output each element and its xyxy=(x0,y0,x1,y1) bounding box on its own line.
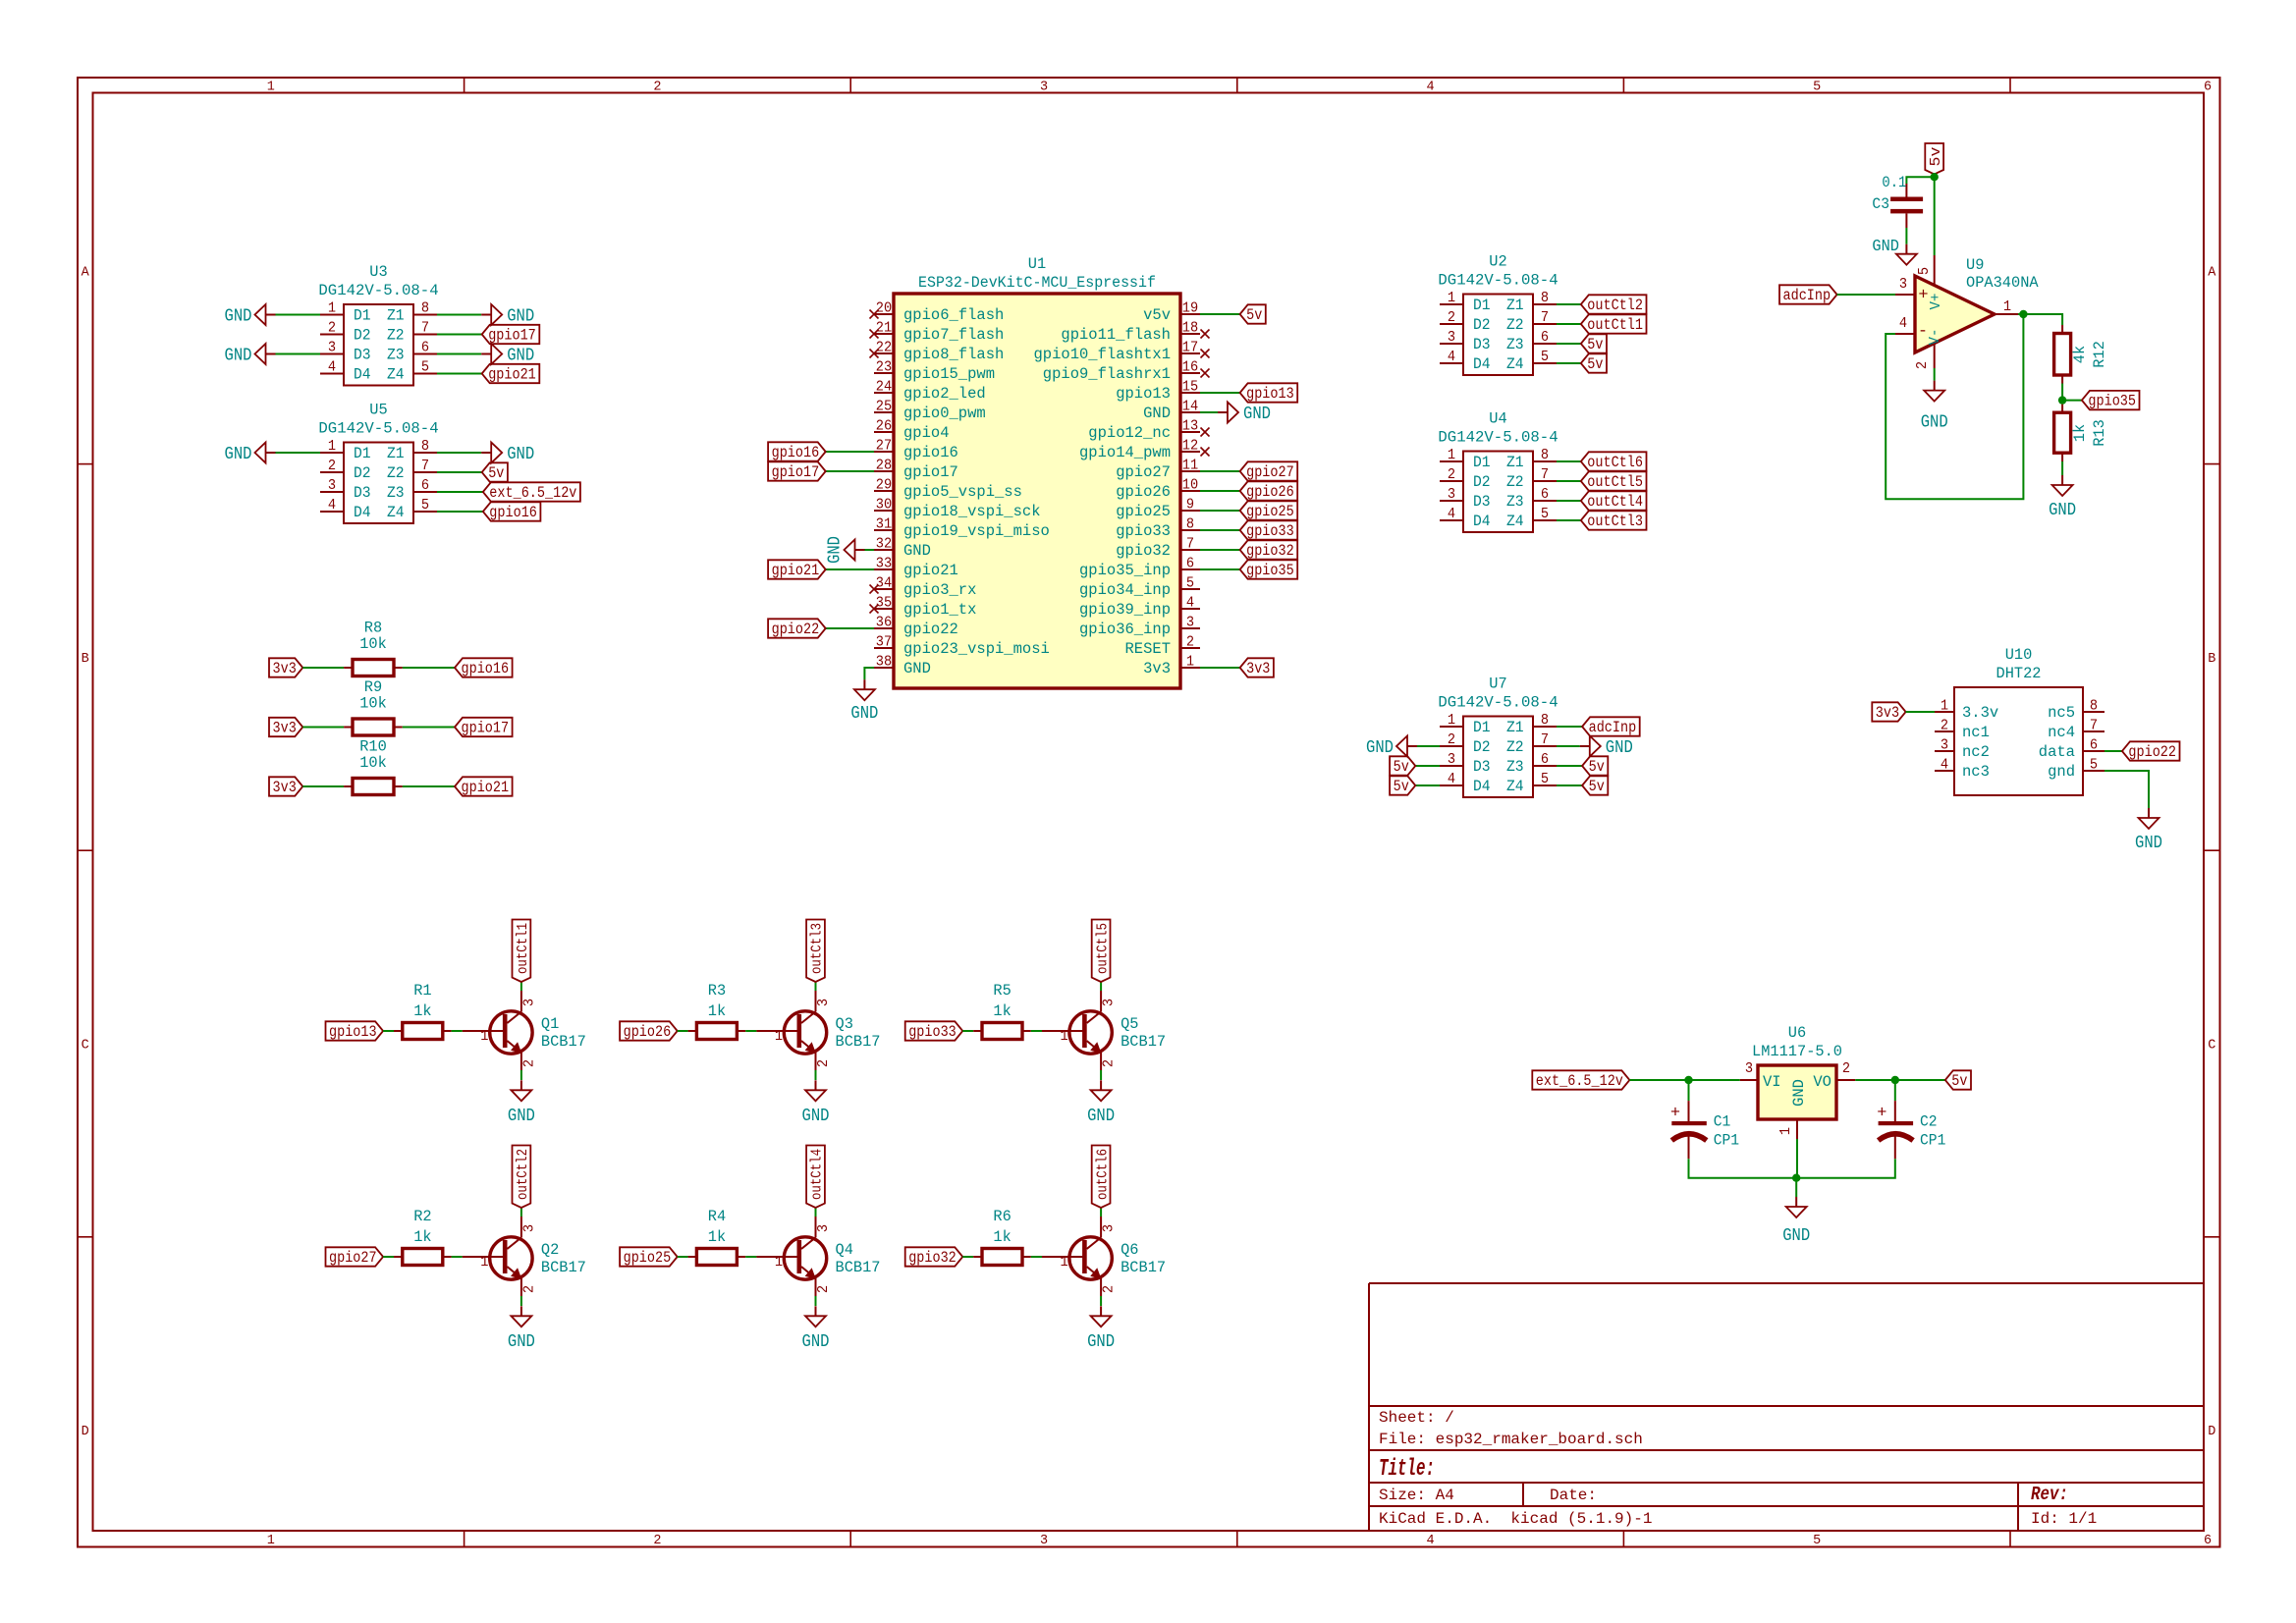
svg-text:6: 6 xyxy=(1541,329,1549,346)
svg-text:D3: D3 xyxy=(354,484,371,502)
wire 5v to U9 pin 5 xyxy=(1934,174,1936,255)
svg-text:gpio23_vspi_mosi: gpio23_vspi_mosi xyxy=(903,640,1050,658)
global label outCtl2 at U2 pin 8 xyxy=(1581,295,1647,314)
svg-text:GND: GND xyxy=(1243,404,1271,424)
svg-text:BCB17: BCB17 xyxy=(836,1033,881,1051)
svg-text:outCtl6: outCtl6 xyxy=(1587,454,1643,471)
wire C2 top xyxy=(1894,1080,1896,1101)
svg-text:5v: 5v xyxy=(488,464,504,482)
global label 5v at U2 pin 6 xyxy=(1581,334,1607,353)
power symbol GND at U3 pin 3 xyxy=(225,344,276,366)
wire gpio33 to R5 xyxy=(962,1030,973,1032)
svg-text:14: 14 xyxy=(1182,399,1198,415)
svg-text:3: 3 xyxy=(1745,1060,1753,1077)
svg-text:R3: R3 xyxy=(708,982,726,1000)
svg-text:3: 3 xyxy=(1899,276,1907,293)
svg-text:13: 13 xyxy=(1182,418,1198,435)
wire R6 to Q6 base xyxy=(1031,1256,1042,1258)
power symbol GND at U6 xyxy=(1782,1197,1810,1246)
junction at U9 output xyxy=(2019,310,2027,318)
global label 5v at U1 xyxy=(1240,304,1266,324)
power symbol GND at U1 pin 38 xyxy=(850,679,878,724)
quad solid-state relay U2 DG142V-5.08-4 xyxy=(1438,253,1558,376)
wire U1 to gpio13 xyxy=(1200,392,1240,394)
wire gpio17 to U1 xyxy=(826,470,874,472)
svg-text:4: 4 xyxy=(1941,757,1948,774)
svg-text:10k: 10k xyxy=(359,754,387,772)
global label ext_6.5_12v at U5 pin 6 xyxy=(483,482,580,502)
svg-text:U9: U9 xyxy=(1966,256,1984,274)
power symbol GND at U1 pin 14 xyxy=(1218,403,1271,425)
svg-text:nc2: nc2 xyxy=(1962,743,1990,761)
global label ext_6.5_12v at U6 xyxy=(1532,1070,1629,1090)
transistor Q5 BCB17 xyxy=(1042,991,1166,1070)
svg-text:gpio16: gpio16 xyxy=(489,504,537,521)
svg-text:30: 30 xyxy=(876,497,892,514)
svg-text:20: 20 xyxy=(876,300,892,317)
svg-text:GND: GND xyxy=(1366,737,1394,758)
svg-text:D1: D1 xyxy=(354,307,371,325)
svg-text:GND: GND xyxy=(225,346,252,366)
svg-text:ext_6.5_12v: ext_6.5_12v xyxy=(1536,1072,1623,1090)
svg-text:1: 1 xyxy=(267,81,275,95)
svg-text:GND: GND xyxy=(825,536,846,564)
wire R13 to GND xyxy=(2061,461,2063,475)
svg-text:adcInp: adcInp xyxy=(1783,287,1831,304)
wire U3 pin 1 to GND xyxy=(276,314,321,316)
svg-text:gpio16: gpio16 xyxy=(903,444,958,461)
global label gpio26 at U1 xyxy=(1240,481,1298,501)
power symbol GND at R13 xyxy=(2049,475,2076,520)
svg-text:19: 19 xyxy=(1182,300,1198,317)
power symbol GND at Q6 emitter xyxy=(1087,1306,1115,1352)
svg-text:gpio18_vspi_sck: gpio18_vspi_sck xyxy=(903,503,1041,520)
svg-text:Z1: Z1 xyxy=(1506,454,1524,471)
global label adcInp at U9 xyxy=(1779,285,1837,304)
wire rail to GND xyxy=(1795,1178,1797,1197)
svg-text:gpio21: gpio21 xyxy=(772,562,820,579)
svg-text:gpio33: gpio33 xyxy=(1246,522,1294,540)
wire U3 pin 5 to gpio21 xyxy=(437,373,482,375)
global label outCtl4 at U4 pin 6 xyxy=(1581,491,1647,511)
svg-text:nc5: nc5 xyxy=(2048,704,2075,722)
svg-text:5: 5 xyxy=(1541,506,1549,522)
svg-text:35: 35 xyxy=(876,595,892,612)
svg-text:3v3: 3v3 xyxy=(273,720,297,737)
power symbol GND at U1 pin 32 xyxy=(825,536,865,564)
svg-text:Z4: Z4 xyxy=(387,366,405,384)
junction at 5v branch xyxy=(1931,173,1939,181)
power symbol GND at U3 pin 6 xyxy=(481,344,534,366)
wire U5 pin 6 to ext_6.5_12v xyxy=(437,491,483,493)
wire U1 to gpio35 xyxy=(1200,568,1240,570)
global label gpio32 at R6 xyxy=(905,1247,963,1267)
wire R8 to gpio16 xyxy=(403,667,455,669)
svg-text:7: 7 xyxy=(1541,731,1549,748)
svg-text:BCB17: BCB17 xyxy=(1121,1033,1166,1051)
svg-text:D3: D3 xyxy=(1473,336,1491,353)
wire ext_6.5_12v to U6 pin 3 xyxy=(1629,1079,1739,1081)
svg-text:LM1117-5.0: LM1117-5.0 xyxy=(1752,1043,1842,1060)
wire U3 pin 3 to GND xyxy=(276,353,321,355)
svg-text:15: 15 xyxy=(1182,379,1198,396)
svg-text:1k: 1k xyxy=(993,1228,1011,1246)
svg-text:gpio27: gpio27 xyxy=(1246,463,1294,481)
svg-text:Z4: Z4 xyxy=(1506,513,1524,530)
svg-text:5v: 5v xyxy=(1394,778,1409,795)
svg-text:gpio26: gpio26 xyxy=(624,1023,672,1041)
svg-text:3: 3 xyxy=(1101,999,1118,1006)
wire U2 pin 7 to outCtl1 xyxy=(1557,323,1581,325)
svg-text:v5v: v5v xyxy=(1143,306,1171,324)
svg-text:5: 5 xyxy=(1813,1534,1821,1548)
resistor R10 10k xyxy=(344,738,403,795)
op-amp U9 OPA340NA xyxy=(1895,256,2039,369)
capacitor C3 0.1 xyxy=(1872,174,1923,228)
svg-text:3: 3 xyxy=(815,999,832,1006)
global label 3v3 at R8 xyxy=(269,658,302,677)
svg-text:Q3: Q3 xyxy=(836,1015,853,1033)
power symbol GND at U3 pin 8 xyxy=(481,304,534,327)
svg-text:GND: GND xyxy=(903,542,931,560)
svg-text:U3: U3 xyxy=(369,263,387,281)
svg-text:Id: 1/1: Id: 1/1 xyxy=(2031,1510,2097,1528)
svg-text:R13: R13 xyxy=(2091,419,2108,447)
svg-text:0.1: 0.1 xyxy=(1882,174,1906,191)
svg-text:D1: D1 xyxy=(1473,454,1491,471)
title block xyxy=(1369,1283,2204,1531)
wire U1 to 5v xyxy=(1200,313,1240,315)
svg-text:Z4: Z4 xyxy=(1506,355,1524,373)
svg-text:3: 3 xyxy=(1040,81,1048,95)
svg-text:GND: GND xyxy=(1872,237,1899,255)
svg-text:GND: GND xyxy=(508,1331,535,1352)
global label gpio35 at U1 xyxy=(1240,560,1298,579)
svg-text:gnd: gnd xyxy=(2048,763,2075,781)
svg-text:gpio16: gpio16 xyxy=(772,444,820,461)
svg-text:7: 7 xyxy=(421,320,429,337)
global label gpio33 at R5 xyxy=(905,1021,963,1041)
svg-text:+: + xyxy=(1877,1105,1886,1123)
svg-text:5: 5 xyxy=(1541,771,1549,787)
svg-text:17: 17 xyxy=(1182,340,1198,356)
svg-text:outCtl3: outCtl3 xyxy=(809,923,826,974)
svg-text:nc4: nc4 xyxy=(2048,724,2075,741)
global label gpio17 at U1 xyxy=(768,461,826,481)
wire U10 pin 6 to gpio22 xyxy=(2105,750,2122,752)
svg-text:DG142V-5.08-4: DG142V-5.08-4 xyxy=(318,282,438,299)
microcontroller module U1 ESP32-DevKitC-MCU_Espressif xyxy=(870,255,1210,688)
svg-text:DG142V-5.08-4: DG142V-5.08-4 xyxy=(1438,272,1558,290)
global label gpio32 at U1 xyxy=(1240,540,1298,560)
svg-text:1: 1 xyxy=(267,1534,275,1548)
svg-text:Date:: Date: xyxy=(1550,1487,1597,1504)
svg-text:nc1: nc1 xyxy=(1962,724,1990,741)
svg-text:GND: GND xyxy=(225,444,252,464)
power symbol GND at U7 pin 7 xyxy=(1580,736,1633,759)
resistor R2 1k xyxy=(394,1208,452,1266)
power symbol GND at U3 pin 1 xyxy=(225,304,276,327)
svg-text:V+: V+ xyxy=(1928,294,1944,310)
wire U3 pin 6 to GND xyxy=(437,353,481,355)
svg-text:6: 6 xyxy=(1541,486,1549,503)
svg-text:GND: GND xyxy=(508,1106,535,1126)
svg-text:GND: GND xyxy=(903,660,931,677)
junction at C2 top xyxy=(1891,1076,1899,1084)
svg-text:2: 2 xyxy=(653,1534,661,1548)
global label 5v at U7 pin 6 xyxy=(1582,756,1608,776)
resistor R9 10k xyxy=(344,678,403,735)
svg-text:1: 1 xyxy=(1061,1254,1068,1271)
svg-text:VO: VO xyxy=(1813,1073,1831,1091)
wire gpio26 to R3 xyxy=(678,1030,688,1032)
svg-text:C2: C2 xyxy=(1920,1113,1938,1131)
svg-text:U1: U1 xyxy=(1028,255,1046,273)
wire U4 pin 8 to outCtl6 xyxy=(1557,460,1581,462)
svg-text:1k: 1k xyxy=(413,1002,431,1020)
svg-text:GND: GND xyxy=(850,703,878,724)
svg-text:2: 2 xyxy=(1448,466,1455,483)
svg-text:2: 2 xyxy=(520,1059,537,1067)
svg-text:Q4: Q4 xyxy=(836,1241,853,1259)
svg-text:gpio21: gpio21 xyxy=(488,366,536,384)
svg-text:D1: D1 xyxy=(1473,719,1491,736)
svg-text:gpio35: gpio35 xyxy=(2088,393,2136,410)
svg-text:gpio16: gpio16 xyxy=(462,660,510,677)
power symbol GND at C3 xyxy=(1872,237,1917,265)
svg-text:gpio2_led: gpio2_led xyxy=(903,385,986,403)
svg-text:6: 6 xyxy=(1541,751,1549,768)
svg-text:5v: 5v xyxy=(1587,355,1603,373)
global label gpio33 at U1 xyxy=(1240,520,1298,540)
svg-text:Z1: Z1 xyxy=(1506,719,1524,736)
svg-text:D3: D3 xyxy=(1473,493,1491,511)
power symbol GND at Q3 emitter xyxy=(802,1080,830,1126)
wire U10 pin 5 to GND xyxy=(2105,771,2149,808)
svg-text:5v: 5v xyxy=(1928,147,1944,167)
wire U4 pin 6 to outCtl4 xyxy=(1557,500,1581,502)
svg-text:C1: C1 xyxy=(1714,1113,1731,1131)
svg-text:gpio27: gpio27 xyxy=(1116,463,1171,481)
svg-text:Z2: Z2 xyxy=(1506,738,1524,756)
svg-text:3: 3 xyxy=(328,477,336,494)
wire gpio22 to U1 xyxy=(826,627,874,629)
svg-text:2: 2 xyxy=(815,1059,832,1067)
svg-text:Z4: Z4 xyxy=(1506,778,1524,795)
svg-text:gpio32: gpio32 xyxy=(1246,542,1294,560)
svg-text:GND: GND xyxy=(802,1331,830,1352)
svg-text:GND: GND xyxy=(2135,833,2162,853)
humidity sensor U10 DHT22 xyxy=(1935,646,2105,795)
svg-text:gpio21: gpio21 xyxy=(903,562,958,579)
global label 3v3 at U1 xyxy=(1240,658,1274,677)
svg-text:gpio17: gpio17 xyxy=(772,463,820,481)
svg-text:outCtl5: outCtl5 xyxy=(1094,923,1111,974)
svg-text:D4: D4 xyxy=(1473,355,1491,373)
svg-text:R4: R4 xyxy=(708,1208,726,1225)
svg-text:7: 7 xyxy=(2090,718,2098,734)
svg-text:5: 5 xyxy=(421,359,429,376)
svg-text:5v: 5v xyxy=(1246,306,1262,324)
svg-text:29: 29 xyxy=(876,477,892,494)
svg-text:gpio22: gpio22 xyxy=(2128,743,2176,761)
svg-text:U7: U7 xyxy=(1489,676,1506,693)
wire R9 to gpio17 xyxy=(403,727,455,729)
svg-text:2: 2 xyxy=(653,81,661,95)
wire Q2 collector to outCtl2 xyxy=(520,1208,522,1217)
svg-text:gpio39_inp: gpio39_inp xyxy=(1079,601,1171,619)
svg-text:gpio10_flashtx1: gpio10_flashtx1 xyxy=(1034,346,1172,363)
junction at ground rail xyxy=(1792,1174,1800,1182)
svg-text:DG142V-5.08-4: DG142V-5.08-4 xyxy=(1438,429,1558,447)
svg-text:gpio15_pwm: gpio15_pwm xyxy=(903,365,995,383)
svg-text:8: 8 xyxy=(2090,698,2098,715)
svg-text:GND: GND xyxy=(802,1106,830,1126)
global label outCtl5 at U4 pin 7 xyxy=(1581,471,1647,491)
svg-text:Title:: Title: xyxy=(1379,1456,1435,1483)
resistor R6 1k xyxy=(973,1208,1031,1266)
wire U4 pin 5 to outCtl3 xyxy=(1557,519,1581,521)
svg-text:GND: GND xyxy=(1782,1225,1810,1246)
svg-text:1k: 1k xyxy=(993,1002,1011,1020)
svg-text:gpio34_inp: gpio34_inp xyxy=(1079,581,1171,599)
svg-text:BCB17: BCB17 xyxy=(541,1259,586,1276)
wire Q4 collector to outCtl4 xyxy=(815,1208,817,1217)
power symbol GND at Q5 emitter xyxy=(1087,1080,1115,1126)
svg-text:2: 2 xyxy=(328,320,336,337)
svg-text:outCtl4: outCtl4 xyxy=(1587,493,1643,511)
svg-text:outCtl5: outCtl5 xyxy=(1587,473,1643,491)
global label gpio13 at R1 xyxy=(326,1021,384,1041)
svg-text:1: 1 xyxy=(1777,1127,1794,1135)
svg-text:D: D xyxy=(2208,1425,2215,1439)
wire R4 to Q4 base xyxy=(745,1256,756,1258)
svg-text:R9: R9 xyxy=(364,678,382,696)
svg-text:gpio32: gpio32 xyxy=(1116,542,1171,560)
wire Q1 collector to outCtl1 xyxy=(520,982,522,991)
svg-text:11: 11 xyxy=(1182,458,1198,474)
svg-text:10k: 10k xyxy=(359,695,387,713)
svg-text:GND: GND xyxy=(1606,737,1633,758)
svg-text:3v3: 3v3 xyxy=(1246,660,1270,677)
svg-text:1: 1 xyxy=(775,1254,783,1271)
svg-text:4: 4 xyxy=(1427,1534,1435,1548)
svg-text:Z3: Z3 xyxy=(387,484,405,502)
wire 3v3 to U10 pin 1 xyxy=(1906,711,1935,713)
svg-text:5: 5 xyxy=(2090,757,2098,774)
svg-text:File: esp32_rmaker_board.sch: File: esp32_rmaker_board.sch xyxy=(1379,1431,1643,1448)
svg-text:gpio33: gpio33 xyxy=(1116,522,1171,540)
svg-text:outCtl6: outCtl6 xyxy=(1094,1149,1111,1200)
svg-text:32: 32 xyxy=(876,536,892,553)
wire U4 pin 7 to outCtl5 xyxy=(1557,480,1581,482)
svg-text:D4: D4 xyxy=(1473,778,1491,795)
svg-text:GND: GND xyxy=(507,306,534,327)
svg-text:outCtl2: outCtl2 xyxy=(515,1149,531,1200)
svg-text:4k: 4k xyxy=(2071,346,2089,363)
global label outCtl1 at Q1 collector xyxy=(513,920,532,983)
global label gpio21 at U3 pin 5 xyxy=(482,364,540,384)
wire Q6 collector to outCtl6 xyxy=(1100,1208,1102,1217)
svg-text:C: C xyxy=(82,1039,89,1054)
svg-text:V-: V- xyxy=(1927,329,1943,346)
svg-text:D2: D2 xyxy=(354,327,371,345)
svg-text:gpio25: gpio25 xyxy=(1246,503,1294,520)
wire U7 pin 3 to 5v xyxy=(1415,765,1440,767)
svg-text:Rev:: Rev: xyxy=(2031,1484,2068,1505)
svg-text:gpio25: gpio25 xyxy=(1116,503,1171,520)
svg-text:D1: D1 xyxy=(1473,297,1491,314)
svg-text:4: 4 xyxy=(1448,506,1455,522)
svg-text:2: 2 xyxy=(1941,718,1948,734)
wire C3 to GND xyxy=(1905,228,1907,244)
svg-text:gpio9_flashrx1: gpio9_flashrx1 xyxy=(1043,365,1171,383)
svg-text:gpio4: gpio4 xyxy=(903,424,950,442)
svg-text:3v3: 3v3 xyxy=(273,779,297,796)
svg-text:2: 2 xyxy=(1448,731,1455,748)
svg-text:D3: D3 xyxy=(354,347,371,364)
wire U7 pin 6 to 5v xyxy=(1557,765,1582,767)
power symbol GND at Q4 emitter xyxy=(802,1306,830,1352)
quad solid-state relay U3 DG142V-5.08-4 xyxy=(318,263,438,386)
svg-text:A: A xyxy=(2208,265,2216,280)
svg-text:Z3: Z3 xyxy=(1506,336,1524,353)
power symbol GND at U7 pin 2 xyxy=(1366,736,1417,759)
svg-text:7: 7 xyxy=(1541,466,1549,483)
svg-text:gpio7_flash: gpio7_flash xyxy=(903,326,1004,344)
svg-text:1: 1 xyxy=(775,1028,783,1045)
resistor R3 1k xyxy=(688,982,746,1040)
svg-text:2: 2 xyxy=(815,1285,832,1293)
svg-text:10k: 10k xyxy=(359,635,387,653)
svg-text:outCtl1: outCtl1 xyxy=(515,923,531,974)
svg-text:2: 2 xyxy=(1101,1285,1118,1293)
global label gpio27 at U1 xyxy=(1240,461,1298,481)
svg-text:12: 12 xyxy=(1182,438,1198,455)
svg-text:outCtl1: outCtl1 xyxy=(1587,316,1643,334)
svg-text:gpio11_flash: gpio11_flash xyxy=(1061,326,1171,344)
svg-text:2: 2 xyxy=(1101,1059,1118,1067)
wire U7 pin 4 to 5v xyxy=(1415,784,1440,786)
svg-text:gpio14_pwm: gpio14_pwm xyxy=(1079,444,1171,461)
svg-text:1: 1 xyxy=(328,438,336,455)
svg-text:1: 1 xyxy=(1448,290,1455,306)
transistor Q4 BCB17 xyxy=(756,1217,880,1296)
wire U1 to 3v3 xyxy=(1200,667,1240,669)
svg-text:31: 31 xyxy=(876,516,892,533)
svg-text:OPA340NA: OPA340NA xyxy=(1966,274,2039,292)
svg-text:VI: VI xyxy=(1763,1073,1781,1091)
svg-text:gpio36_inp: gpio36_inp xyxy=(1079,621,1171,638)
wire R1 to Q1 base xyxy=(452,1030,463,1032)
svg-text:gpio22: gpio22 xyxy=(772,621,820,638)
svg-text:3: 3 xyxy=(815,1224,832,1232)
global label 5v at U7 pin 5 xyxy=(1582,776,1608,795)
svg-text:4: 4 xyxy=(1448,349,1455,365)
svg-text:1: 1 xyxy=(2003,298,2011,315)
svg-text:3: 3 xyxy=(1448,486,1455,503)
svg-text:GND: GND xyxy=(1790,1079,1808,1107)
svg-text:2: 2 xyxy=(1448,309,1455,326)
power symbol GND at U10 pin 5 xyxy=(2135,808,2162,853)
svg-text:+: + xyxy=(1670,1105,1680,1123)
svg-text:33: 33 xyxy=(876,556,892,572)
wire U1 to gpio33 xyxy=(1200,529,1240,531)
svg-text:26: 26 xyxy=(876,418,892,435)
wire adcInp to U9 pin 3 xyxy=(1837,294,1895,296)
svg-text:gpio13: gpio13 xyxy=(1246,385,1294,403)
wire R3 to Q3 base xyxy=(745,1030,756,1032)
